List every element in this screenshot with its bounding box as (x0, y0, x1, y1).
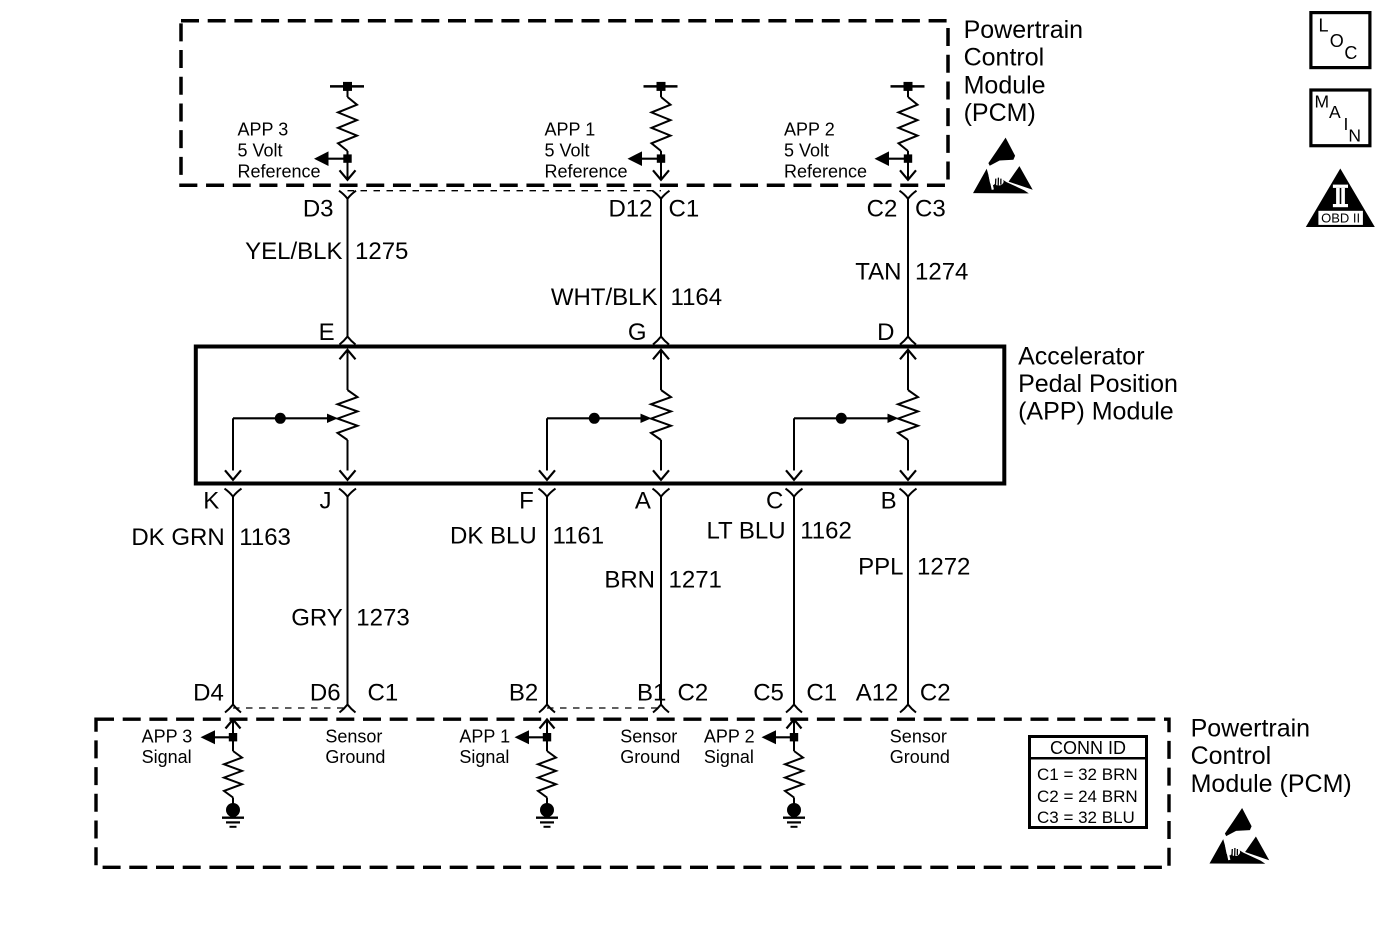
svg-text:Ground: Ground (325, 747, 385, 767)
svg-text:A: A (635, 488, 651, 515)
svg-text:N: N (1348, 125, 1361, 145)
svg-text:WHT/BLK: WHT/BLK (551, 284, 658, 311)
svg-text:C1: C1 (669, 196, 700, 223)
svg-text:B2: B2 (509, 679, 538, 706)
svg-text:G: G (628, 319, 647, 346)
svg-text:D6: D6 (310, 679, 341, 706)
svg-text:Pedal Position: Pedal Position (1018, 370, 1178, 398)
svg-text:5 Volt: 5 Volt (784, 141, 829, 161)
svg-text:APP 2: APP 2 (704, 726, 755, 746)
svg-text:Powertrain: Powertrain (1191, 714, 1311, 742)
svg-text:APP 3: APP 3 (142, 726, 193, 746)
svg-text:Ground: Ground (890, 747, 950, 767)
svg-text:Control: Control (1191, 742, 1272, 770)
svg-text:C2 = 24 BRN: C2 = 24 BRN (1037, 787, 1138, 806)
svg-text:5 Volt: 5 Volt (545, 141, 590, 161)
svg-text:Module: Module (964, 71, 1046, 99)
svg-text:1272: 1272 (917, 553, 970, 580)
svg-text:K: K (203, 488, 219, 515)
svg-text:B: B (881, 488, 897, 515)
svg-text:DK BLU: DK BLU (450, 522, 537, 549)
svg-text:Module (PCM): Module (PCM) (1191, 770, 1352, 798)
svg-text:Powertrain: Powertrain (964, 16, 1084, 44)
svg-text:F: F (519, 488, 534, 515)
svg-text:LT BLU: LT BLU (706, 518, 785, 545)
svg-text:1271: 1271 (669, 567, 722, 594)
svg-text:5 Volt: 5 Volt (238, 141, 283, 161)
svg-text:D12: D12 (608, 196, 652, 223)
svg-text:Control: Control (964, 44, 1045, 72)
svg-text:Sensor: Sensor (325, 726, 382, 746)
svg-text:O: O (1330, 31, 1344, 51)
svg-text:1163: 1163 (239, 524, 291, 551)
svg-text:Signal: Signal (459, 747, 509, 767)
svg-text:CONN ID: CONN ID (1050, 738, 1126, 758)
svg-text:C2: C2 (678, 679, 709, 706)
svg-text:APP 1: APP 1 (545, 120, 596, 140)
svg-text:1275: 1275 (355, 238, 408, 265)
svg-text:D: D (877, 319, 894, 346)
svg-text:1164: 1164 (671, 284, 723, 311)
svg-text:C2: C2 (920, 679, 951, 706)
svg-text:1273: 1273 (356, 605, 409, 632)
svg-text:APP 3: APP 3 (238, 120, 289, 140)
svg-text:Sensor: Sensor (890, 726, 947, 746)
svg-text:GRY: GRY (291, 605, 343, 632)
svg-text:(APP) Module: (APP) Module (1018, 398, 1174, 426)
svg-text:APP 1: APP 1 (459, 726, 510, 746)
svg-text:D4: D4 (193, 679, 224, 706)
svg-text:APP 2: APP 2 (784, 120, 835, 140)
svg-text:C2: C2 (867, 196, 898, 223)
svg-text:1274: 1274 (915, 259, 968, 286)
svg-text:E: E (319, 319, 335, 346)
svg-text:B1: B1 (637, 679, 666, 706)
svg-text:Signal: Signal (142, 747, 192, 767)
svg-text:A: A (1329, 102, 1341, 122)
svg-text:Reference: Reference (784, 161, 867, 181)
svg-text:C5: C5 (753, 679, 784, 706)
svg-text:J: J (320, 488, 332, 515)
svg-text:BRN: BRN (604, 567, 655, 594)
svg-text:Signal: Signal (704, 747, 754, 767)
svg-text:M: M (1315, 91, 1330, 111)
svg-text:C: C (766, 488, 783, 515)
svg-text:Sensor: Sensor (620, 726, 677, 746)
svg-text:C3: C3 (915, 196, 946, 223)
svg-text:D3: D3 (303, 196, 334, 223)
svg-text:TAN: TAN (855, 259, 901, 286)
svg-text:Accelerator: Accelerator (1018, 342, 1144, 370)
svg-text:OBD II: OBD II (1321, 210, 1360, 225)
svg-text:Reference: Reference (545, 161, 628, 181)
svg-text:PPL: PPL (858, 553, 903, 580)
svg-text:DK GRN: DK GRN (131, 524, 224, 551)
svg-text:C1: C1 (368, 679, 399, 706)
svg-text:C: C (1344, 43, 1357, 63)
svg-text:YEL/BLK: YEL/BLK (245, 238, 342, 265)
svg-text:C1 = 32 BRN: C1 = 32 BRN (1037, 765, 1138, 784)
svg-text:Reference: Reference (238, 161, 321, 181)
svg-text:Ground: Ground (620, 747, 680, 767)
svg-text:1162: 1162 (800, 518, 852, 545)
svg-text:C1: C1 (806, 679, 837, 706)
svg-text:A12: A12 (856, 679, 899, 706)
svg-text:L: L (1319, 16, 1329, 36)
svg-text:1161: 1161 (553, 522, 605, 549)
svg-text:C3 = 32 BLU: C3 = 32 BLU (1037, 808, 1135, 827)
svg-text:(PCM): (PCM) (964, 99, 1036, 127)
